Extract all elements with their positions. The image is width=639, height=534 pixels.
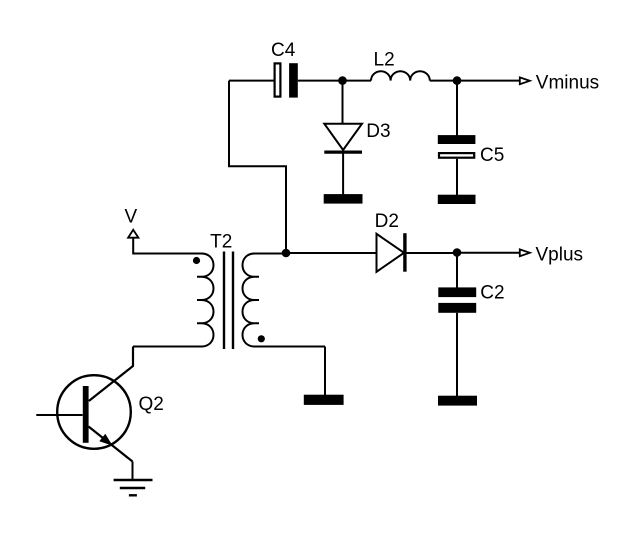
wire C4 to node A xyxy=(298,80,343,82)
ground symbol at Q2 emitter xyxy=(114,480,153,495)
svg-text:Vplus: Vplus xyxy=(536,245,584,266)
wire node B to Vminus arrow xyxy=(457,80,520,82)
wire node A to D3 anode xyxy=(342,81,344,124)
wire node D to C2 xyxy=(456,253,458,288)
svg-text:D2: D2 xyxy=(375,211,399,232)
wire T2 secondary bottom to ground xyxy=(324,347,326,396)
T2 primary phase dot xyxy=(193,257,200,264)
transformer T2 primary winding xyxy=(133,254,214,347)
svg-text:C5: C5 xyxy=(480,145,504,166)
svg-text:T2: T2 xyxy=(210,232,232,253)
wire V to T2 primary top xyxy=(133,238,201,254)
wire C2 to ground xyxy=(456,313,458,396)
T2 core lines xyxy=(224,252,233,350)
svg-text:C2: C2 xyxy=(480,283,504,304)
transistor Q2 xyxy=(36,375,132,461)
wire D2 cathode to node D xyxy=(406,252,457,254)
wire C5 to ground xyxy=(456,159,458,195)
wire node A to L2 xyxy=(343,80,372,82)
transformer T2 secondary winding xyxy=(243,254,326,347)
wire top-left from C4 left plate xyxy=(229,80,274,82)
T2 primary winding ticks xyxy=(197,277,202,324)
node C junction xyxy=(282,249,291,258)
svg-text:D3: D3 xyxy=(366,121,390,142)
V terminal arrow xyxy=(128,230,138,238)
wire D3 cathode to ground xyxy=(342,153,344,195)
T2 secondary phase dot xyxy=(258,335,265,342)
capacitor C4 xyxy=(275,63,298,97)
node B junction xyxy=(453,76,462,85)
wire left loop C4 return to node C xyxy=(229,81,286,253)
wire Q2 emitter to ground xyxy=(132,462,134,481)
node D junction xyxy=(453,248,462,257)
wire T2 primary bottom to Q2 collector xyxy=(89,347,133,402)
T2 secondary winding ticks xyxy=(255,277,260,324)
Vminus terminal arrow xyxy=(520,77,530,84)
svg-text:Q2: Q2 xyxy=(139,394,164,415)
svg-text:L2: L2 xyxy=(374,50,395,71)
capacitor C5 xyxy=(438,135,476,158)
Vplus terminal arrow xyxy=(520,249,530,256)
ground bar under T2 secondary xyxy=(304,395,344,405)
wire L2 to node B xyxy=(430,80,457,82)
capacitor C2 xyxy=(438,287,476,312)
ground bar under C2 xyxy=(438,396,477,406)
svg-text:Vminus: Vminus xyxy=(536,72,599,93)
diode D2 xyxy=(377,233,405,272)
diode D3 xyxy=(324,124,362,152)
node A junction xyxy=(338,76,347,85)
ground bar under D3 xyxy=(324,194,363,204)
svg-text:C4: C4 xyxy=(271,40,296,61)
ground bar under C5 xyxy=(438,195,476,204)
svg-text:V: V xyxy=(125,207,138,228)
wire node C to D2 anode xyxy=(286,252,377,254)
inductor L2 xyxy=(371,71,430,80)
wire node D to Vplus arrow xyxy=(457,252,520,254)
wire node B to C5 xyxy=(456,81,458,136)
